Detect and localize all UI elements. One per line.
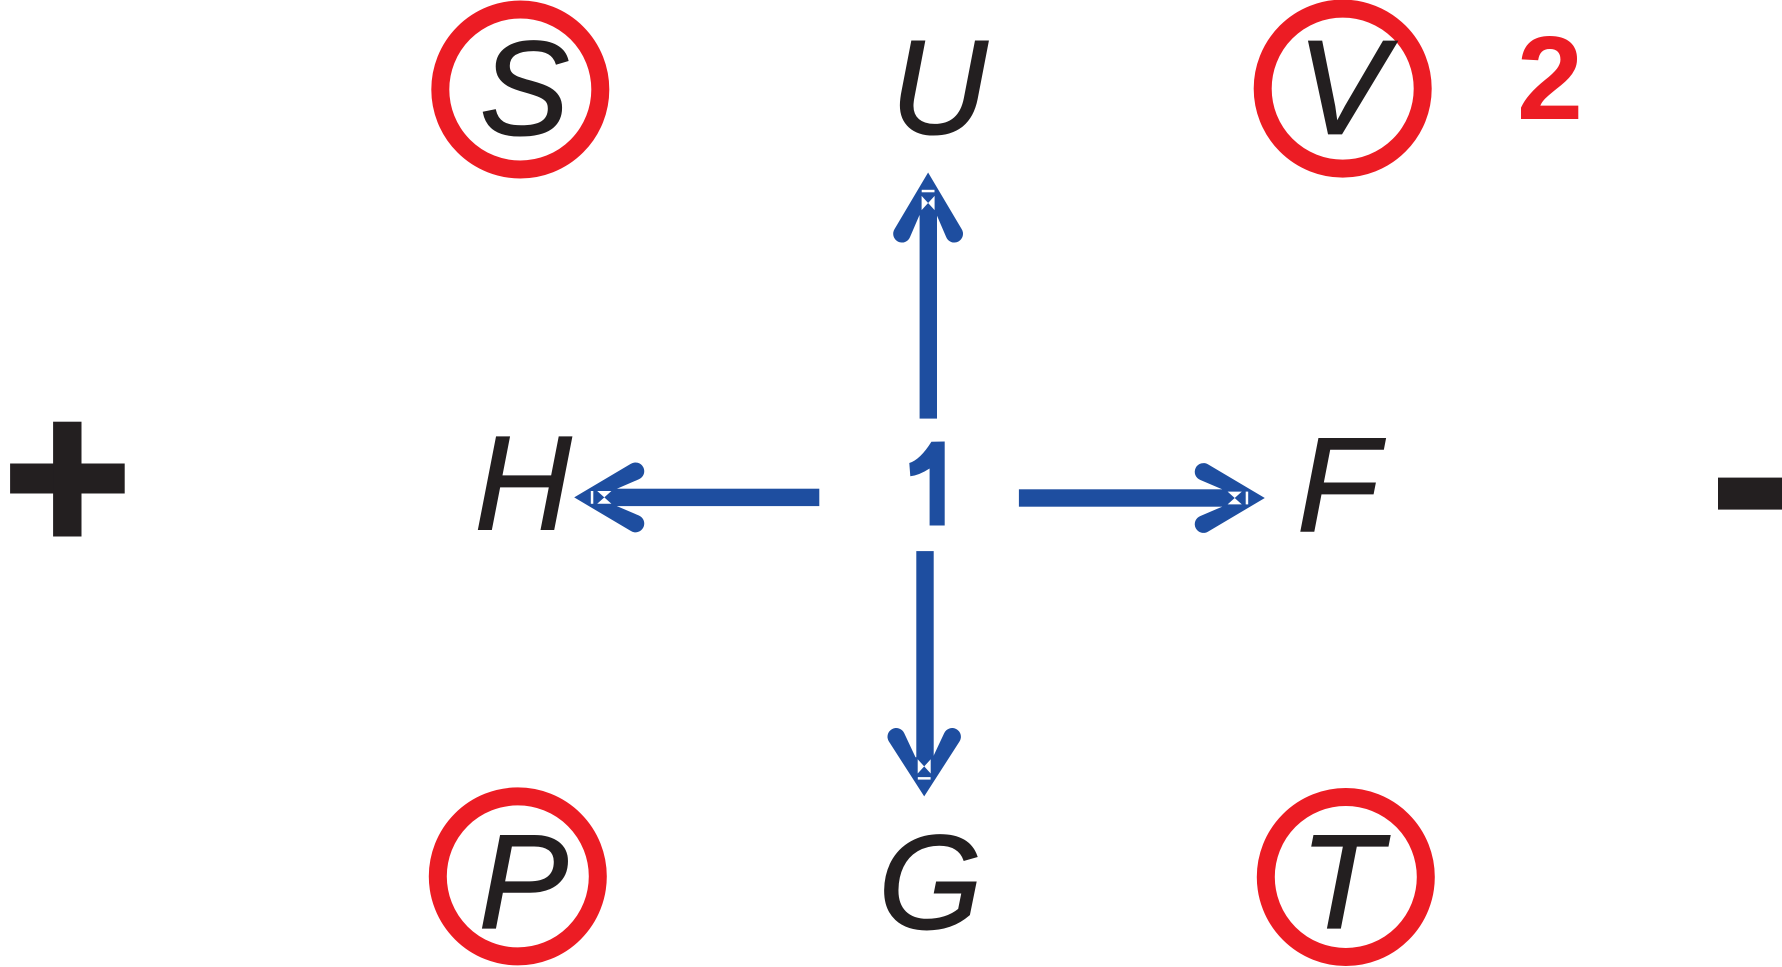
blue node label 1 xyxy=(909,442,944,526)
arrow down (1 to G): shaft xyxy=(916,551,933,760)
svg-text:G: G xyxy=(878,808,982,957)
arrow up: head xyxy=(893,173,963,243)
circle P (red ring) xyxy=(438,796,598,956)
arrow right: head xyxy=(1195,463,1265,533)
minus sign (right pole -) xyxy=(1718,478,1782,510)
circle S (red ring) xyxy=(440,10,600,170)
arrow down: head xyxy=(887,728,960,796)
svg-text:H: H xyxy=(475,409,572,558)
svg-text:S: S xyxy=(480,15,569,164)
arrow up: white bowtie xyxy=(922,196,935,210)
svg-text:P: P xyxy=(479,808,568,957)
plus sign (left pole +) xyxy=(10,422,125,537)
arrow left (1 to H): shaft xyxy=(612,489,819,506)
arrow up (1 to U): shaft xyxy=(920,210,937,419)
arrow down: white tick xyxy=(918,777,931,780)
arrow left: head xyxy=(574,462,644,532)
arrow left: white tick xyxy=(591,491,594,504)
svg-text:F: F xyxy=(1297,411,1386,560)
arrow right: white tick xyxy=(1246,492,1249,505)
arrow right: white bowtie xyxy=(1228,492,1242,505)
svg-text:U: U xyxy=(891,14,989,163)
svg-text:2: 2 xyxy=(1517,12,1583,145)
arrow left: white bowtie xyxy=(597,491,611,504)
circle T (red ring) xyxy=(1266,797,1426,957)
circle V (red ring) xyxy=(1263,9,1423,169)
arrow up: white tick xyxy=(922,190,935,193)
svg-text:T: T xyxy=(1300,808,1390,957)
arrow down: white bowtie xyxy=(918,759,931,773)
svg-text:V: V xyxy=(1297,14,1397,163)
arrow right (1 to F): shaft xyxy=(1019,489,1226,506)
